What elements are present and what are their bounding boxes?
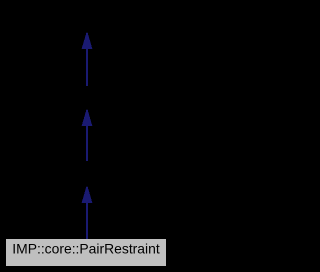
svg-text:IMP::core::PairRestraint: IMP::core::PairRestraint — [12, 240, 160, 256]
